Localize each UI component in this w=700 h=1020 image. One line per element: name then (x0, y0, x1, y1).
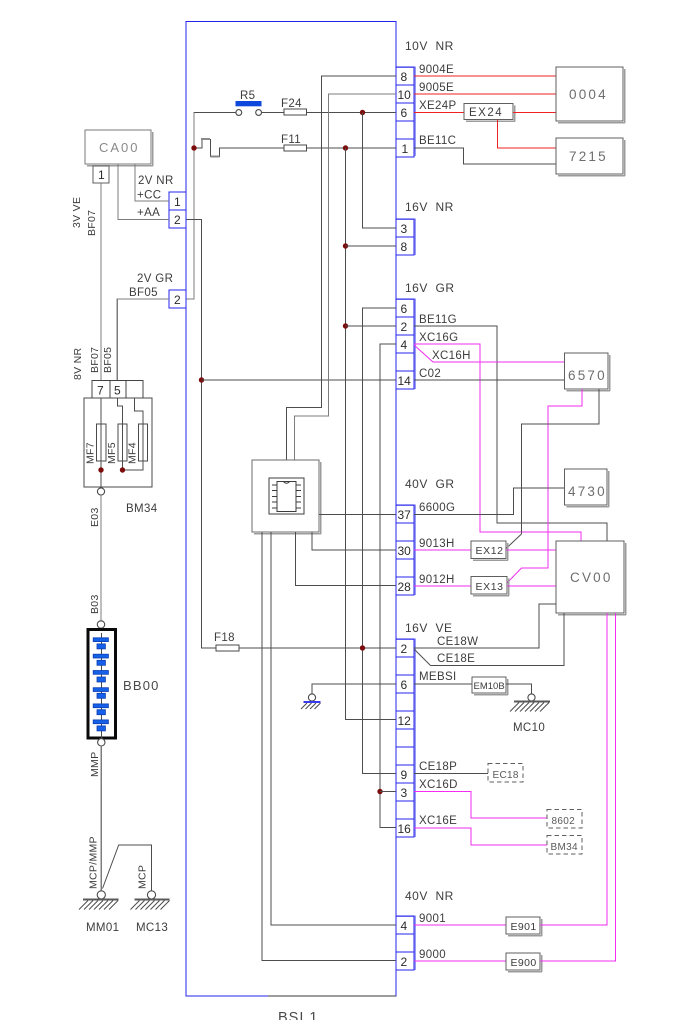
svg-text:F11: F11 (281, 134, 301, 146)
connector group 16V NR rail (396, 200, 454, 255)
svg-text:E900: E900 (511, 957, 537, 969)
splice EM10B (472, 677, 508, 695)
box 4730 (565, 469, 609, 507)
svg-text:7215: 7215 (569, 149, 608, 164)
svg-text:6600G: 6600G (419, 502, 455, 514)
svg-text:E901: E901 (511, 921, 537, 933)
svg-text:6: 6 (401, 106, 408, 120)
svg-text:4: 4 (401, 919, 408, 933)
svg-text:12: 12 (398, 714, 412, 728)
svg-text:16: 16 (398, 822, 412, 836)
relay R5 (194, 90, 262, 115)
wire MMP: battery to ground (100, 746, 102, 891)
wire E03: BM34 to battery node (100, 495, 102, 621)
fuse MF7 (85, 424, 107, 464)
svg-text:3: 3 (401, 222, 408, 236)
wire EX13 to CV00 (507, 585, 556, 587)
pin 6 (10V NR) (396, 103, 414, 121)
wire 6570 to splice EX12 (dark) (506, 389, 599, 549)
box 6570 (565, 353, 610, 391)
svg-text:CE18E: CE18E (437, 653, 475, 665)
svg-text:BE11G: BE11G (419, 314, 457, 326)
wire EX24 to 7215 (498, 120, 557, 149)
fuse F18 (214, 632, 239, 651)
connector group 16V VE rail (396, 621, 453, 837)
junction MF7 output (98, 467, 103, 472)
svg-text:XC16G: XC16G (419, 332, 458, 344)
branch wire to MC13 ground (103, 845, 152, 891)
wire microcontroller to pin 30 (40V GR) (312, 532, 396, 550)
svg-text:8V NR: 8V NR (72, 347, 84, 380)
svg-text:C02: C02 (419, 368, 441, 380)
connector group 10V NR rail (396, 39, 454, 156)
ground MM01 (79, 891, 119, 934)
wire MF7 output to BM34 bottom (100, 461, 102, 487)
wire 9005E pin 10 to 0004 (414, 82, 556, 94)
fuse MF4 (127, 424, 148, 464)
wire pin 8 (10V NR) to microcontroller (287, 76, 396, 460)
wire CE18W pin 2 to CV00 (414, 604, 556, 648)
svg-text:9013H: 9013H (419, 538, 455, 550)
svg-text:14: 14 (398, 374, 412, 388)
svg-text:MM01: MM01 (86, 922, 119, 934)
ground MC13 (131, 891, 170, 934)
connector group 16V GR rail (396, 281, 455, 389)
svg-text:9005E: 9005E (419, 82, 454, 94)
wire 6600G pin 37 to 4730 (414, 488, 565, 515)
svg-text:0004: 0004 (569, 87, 608, 102)
svg-text:16V NR: 16V NR (405, 200, 454, 214)
svg-text:CE18W: CE18W (437, 636, 478, 648)
distribution bus to pin 12 (16V VE) (346, 148, 397, 720)
wire +AA: CA00 to BSI pin 2 (118, 164, 169, 220)
svg-text:MCP: MCP (137, 865, 149, 889)
remote box EC18 (dashed) (488, 764, 523, 783)
wire XC16D pin 3 to 8602 (414, 779, 547, 818)
wire microcontroller to pin 4 (40V NR) (271, 532, 396, 925)
svg-text:BF07: BF07 (89, 347, 101, 373)
svg-text:R5: R5 (240, 90, 255, 102)
svg-text:2: 2 (401, 320, 408, 334)
internal wire +AA bus (186, 220, 216, 649)
blank pin box (16V GR) (396, 353, 414, 371)
svg-text:6: 6 (401, 302, 408, 316)
svg-text:2: 2 (174, 213, 181, 227)
wire blank pin to fuse MF4 (135, 398, 144, 424)
svg-text:40V GR: 40V GR (405, 477, 455, 491)
junction to pin 3 (16V VE) (377, 789, 382, 794)
svg-text:9001: 9001 (419, 913, 446, 925)
svg-text:9000: 9000 (419, 949, 446, 961)
wire junction to pin 14 (16V GR) (202, 379, 397, 381)
svg-text:9004E: 9004E (419, 64, 454, 76)
ground MC10 (510, 694, 550, 734)
BM34 pin 5 box (110, 381, 126, 399)
wire CE18P pin 9 to EC18 (414, 761, 488, 774)
BM34 blank pin box (126, 381, 143, 399)
svg-text:8: 8 (401, 240, 408, 254)
svg-text:BF05: BF05 (102, 347, 114, 373)
svg-text:4730: 4730 (568, 484, 607, 499)
svg-text:CE18P: CE18P (419, 761, 457, 773)
fuse MF5 (106, 424, 127, 464)
wire BF07: CA00 pin1 to BM34 pin 7 (100, 183, 102, 381)
svg-text:40V NR: 40V NR (405, 889, 454, 903)
svg-text:16V GR: 16V GR (405, 281, 455, 295)
wire XC16E pin 16 to BM34 (414, 815, 547, 845)
svg-text:30: 30 (398, 544, 412, 558)
svg-text:EC18: EC18 (493, 770, 519, 781)
svg-text:2: 2 (174, 293, 181, 307)
svg-text:1: 1 (402, 142, 409, 156)
internal ground of pin 6 (16V VE) (301, 684, 396, 709)
svg-text:9: 9 (401, 768, 408, 782)
svg-text:MF4: MF4 (127, 442, 139, 464)
splice E900 (506, 953, 542, 972)
junction on pin6 wire feeding pin 3 (360, 110, 365, 115)
pin 6 (16V GR) (396, 299, 414, 317)
left connector pin 1 (+CC BF07) (169, 192, 186, 210)
fuse output collector wire (123, 461, 144, 470)
svg-text:+AA: +AA (137, 207, 160, 219)
remote box BM34 (dashed) (547, 836, 582, 855)
wire EX24 to 0004 (513, 112, 556, 114)
pin 2 (16V GR) (396, 317, 414, 335)
pin 8 (16V NR) (396, 237, 414, 255)
svg-text:BE11C: BE11C (419, 135, 456, 147)
svg-text:BF05: BF05 (129, 287, 158, 299)
svg-text:1: 1 (98, 168, 105, 182)
pin 4 (40V NR) (396, 916, 414, 934)
junction MF5 output (120, 467, 125, 472)
svg-text:2: 2 (401, 642, 408, 656)
svg-text:5: 5 (114, 384, 121, 398)
wire BE11C pin 1 to 7215 (414, 135, 556, 164)
battery BB00 (88, 630, 160, 743)
svg-text:37: 37 (398, 508, 412, 522)
wire C02 pin 14 to 6570 (414, 368, 565, 380)
wire microcontroller to pin 37 (6600G) (319, 514, 396, 516)
svg-text:E03: E03 (89, 507, 101, 527)
svg-text:2V GR: 2V GR (137, 273, 173, 285)
junction F11 input on supply bus (191, 145, 196, 150)
pin 8 (10V NR) (396, 67, 414, 85)
wire EM10B to ground MC10 (506, 684, 532, 694)
svg-text:BM34: BM34 (126, 503, 158, 515)
remote box 8602 (dashed) (547, 810, 582, 829)
svg-text:CV00: CV00 (570, 570, 613, 585)
wire F11 to pin 1 (10V NR) (307, 147, 397, 149)
svg-text:6570: 6570 (568, 368, 607, 383)
connector group 40V NR rail (396, 889, 454, 970)
splice EX12 (471, 541, 508, 560)
svg-text:BF07: BF07 (86, 210, 98, 236)
pin 3 (16V NR) (396, 219, 414, 237)
svg-text:9012H: 9012H (419, 574, 455, 586)
blank pin box 5 (16V VE) (396, 801, 414, 819)
wire +CC: CA00 to BSI pin 1 (135, 164, 169, 201)
svg-text:7: 7 (97, 384, 104, 398)
wire 9013H pin 30 to splice EX12 (414, 538, 471, 550)
box CA00 (85, 130, 153, 166)
svg-text:B03: B03 (89, 594, 101, 614)
svg-text:6: 6 (401, 678, 408, 692)
junction +AA bus to pin 14 (199, 377, 204, 382)
junction to pin 2 (16V GR) (343, 323, 348, 328)
fuse F11 (281, 134, 307, 151)
microcontroller box U1 (252, 460, 321, 534)
wire XC16H branch to 6570 (414, 345, 565, 362)
wire 9012H pin 28 to splice EX13 (414, 574, 471, 586)
svg-text:4: 4 (401, 338, 408, 352)
pin 2 (40V NR) (396, 952, 414, 970)
box CV00 (556, 541, 626, 615)
blank pin box (10V NR) (396, 121, 414, 139)
wire CE18E pin 2 to CV00 bottom (414, 613, 564, 666)
wire pin 6 (16V GR) down (363, 308, 397, 774)
wire MEBSI pin 6 to splice EM10B (414, 671, 472, 684)
svg-text:MMP: MMP (89, 752, 101, 777)
internal supply bus from BF05 pin 2 (186, 112, 194, 299)
svg-text:MC10: MC10 (513, 722, 545, 734)
svg-text:XC16D: XC16D (419, 779, 458, 791)
blank pin box (40V GR) (396, 523, 414, 541)
blank pin box (16V VE) (396, 657, 414, 675)
wire 6570 to splice EX13 (magenta) (507, 389, 582, 583)
svg-text:1: 1 (174, 195, 181, 209)
pin 10 (10V NR) (396, 85, 414, 103)
blank pin box 2 (40V GR) (396, 559, 414, 577)
BM34 output terminal circle (97, 488, 104, 495)
svg-text:F24: F24 (281, 98, 302, 110)
pin 28 (40V GR) (396, 577, 414, 595)
svg-text:3V VE: 3V VE (71, 197, 83, 228)
svg-text:XE24P: XE24P (419, 100, 457, 112)
svg-text:2V NR: 2V NR (138, 175, 174, 187)
svg-text:3: 3 (401, 786, 408, 800)
svg-text:EM10B: EM10B (474, 681, 505, 692)
junction to pin 8 (16V NR) (343, 243, 348, 248)
svg-text:BM34: BM34 (551, 842, 578, 853)
wire 9004E pin 8 to 0004 (414, 64, 556, 76)
wire pin 10 (10V NR) to microcontroller (294, 94, 396, 460)
svg-text:CA00: CA00 (99, 140, 140, 155)
splice EX13 (471, 577, 509, 596)
junction on pin1 wire feeding distribution bus (343, 145, 348, 150)
svg-text:EX24: EX24 (469, 107, 503, 119)
fuse box BM34 outline (84, 398, 152, 487)
wire R5 to fuse F24 (262, 112, 285, 114)
wire pin 4 (16V GR) down to pin 16 (380, 344, 396, 828)
svg-text:MC13: MC13 (136, 922, 168, 934)
box 0004 (556, 67, 625, 123)
pin 9 (16V VE) (396, 765, 414, 783)
pin 1 (10V NR) (396, 139, 414, 157)
connector group 40V GR rail (396, 477, 455, 595)
pin 14 (16V GR) (396, 371, 414, 389)
pin 3 (16V VE) (396, 783, 414, 801)
left connector pin 2 (BF05) (169, 290, 186, 308)
svg-text:MF5: MF5 (106, 442, 118, 464)
svg-text:8602: 8602 (552, 816, 576, 827)
blank pin box (40V NR) (396, 934, 414, 952)
svg-text:EX13: EX13 (476, 581, 504, 593)
wire microcontroller to pin 2 (40V NR) (262, 532, 396, 961)
node circle between E03 and B03 (97, 621, 104, 628)
left connector pin 2 (+AA BF07) (169, 210, 186, 228)
wire F24 to pin 6 (10V NR) (307, 112, 397, 114)
ECU BSI1 main box (186, 22, 396, 1020)
pin 6 (16V VE) (396, 675, 414, 693)
wire pin7 to fuse MF7 (100, 398, 102, 424)
svg-text:8: 8 (401, 70, 408, 84)
pin 37 (40V GR) (396, 505, 414, 523)
svg-text:XC16H: XC16H (432, 350, 471, 362)
wire E901 to CV00 bottom (540, 613, 607, 925)
wire junction to pin 3 (16V VE) (380, 791, 396, 793)
svg-text:EX12: EX12 (476, 545, 504, 557)
fuse F24 (281, 98, 307, 115)
svg-text:MF7: MF7 (85, 442, 97, 464)
wire junction to pin 3 (16V NR) (363, 113, 397, 229)
svg-text:+CC: +CC (137, 190, 161, 202)
wire junction to pin 2 (16V GR) (346, 325, 397, 327)
thermal breaker symbol on F11 line (194, 140, 284, 157)
CA00 pin 1 box (93, 166, 109, 183)
wire EX12 to CV00 (506, 549, 556, 551)
wire BE11G pin 2 to CV00 top (414, 314, 607, 541)
blank pin box 2 (16V VE) (396, 693, 414, 711)
pin 16 (16V VE) (396, 819, 414, 837)
pin 4 (16V GR) (396, 335, 414, 353)
splice EX24 (464, 104, 515, 122)
wire E900 to CV00 bottom (540, 613, 616, 961)
box 7215 (556, 138, 625, 176)
battery negative terminal circle (98, 739, 105, 746)
BM34 pin 7 box (92, 381, 110, 399)
svg-text:10: 10 (398, 88, 412, 102)
svg-text:28: 28 (398, 580, 412, 594)
svg-text:MEBSI: MEBSI (419, 671, 457, 683)
svg-text:BSI 1: BSI 1 (278, 1010, 318, 1020)
svg-text:MCP/MMP: MCP/MMP (88, 836, 100, 889)
svg-text:F18: F18 (214, 632, 235, 644)
svg-text:BB00: BB00 (123, 678, 160, 693)
pin 12 (16V VE) (396, 711, 414, 729)
wire BF05: BSI pin 2 to BM34 pin 5 (117, 299, 169, 381)
wire XE24P pin 6 to splice EX24 (414, 100, 464, 113)
wire XC16G pin 4 to CV00 top (414, 332, 581, 541)
splice E901 (506, 917, 542, 936)
junction on CE18W rail (360, 645, 365, 650)
wire pin5 to fuse MF5 (117, 398, 122, 424)
svg-text:16V VE: 16V VE (405, 621, 453, 635)
wire junction to pin 8 (16V NR) (346, 245, 397, 247)
wire F18 to pin 2 (16V VE) (239, 647, 396, 649)
pin 2 (16V VE) (396, 639, 414, 657)
pin 30 (40V GR) (396, 541, 414, 559)
svg-text:XC16E: XC16E (419, 815, 457, 827)
wire microcontroller to pin 28 (40V GR) (295, 532, 396, 586)
blank pin box 3 (16V VE) (396, 729, 414, 747)
wire 9001 pin 4 to splice E901 (414, 913, 506, 925)
svg-text:10V NR: 10V NR (405, 39, 454, 53)
wire 9000 pin 2 to splice E900 (414, 949, 506, 961)
blank pin box 4 (16V VE) (396, 747, 414, 765)
svg-text:2: 2 (401, 955, 408, 969)
